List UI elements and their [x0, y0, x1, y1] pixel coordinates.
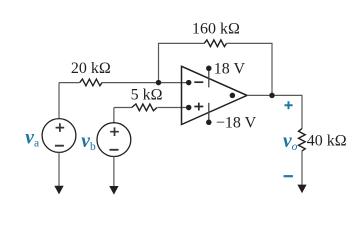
op-amp output dot — [230, 93, 236, 99]
ground arrow (load) — [297, 185, 306, 194]
wire: load bottom lead — [301, 151, 303, 186]
wire: va top lead — [58, 83, 60, 119]
op-amp plus marker — [194, 103, 203, 111]
svg-text:20 kΩ: 20 kΩ — [71, 60, 111, 77]
wire: va bottom lead — [58, 152, 60, 186]
pin: V- supply — [208, 103, 210, 123]
op-amp noninverting terminal dot — [186, 105, 192, 111]
ground arrow (vb) — [109, 186, 118, 195]
wire: top feedback right segment — [227, 43, 273, 95]
node: junction output/feedback — [269, 93, 275, 99]
ground arrow (va) — [54, 186, 63, 195]
wire: vb top lead — [113, 108, 115, 123]
op-amp minus marker — [194, 81, 203, 83]
svg-text:−18 V: −18 V — [216, 115, 257, 132]
pin: V+ supply — [208, 68, 210, 87]
svg-text:5 kΩ: 5 kΩ — [131, 87, 163, 104]
wire: noninverting row right — [157, 107, 188, 109]
source vb circle — [97, 123, 131, 157]
resistor RL 40k zigzag — [299, 129, 306, 151]
wire: inverting input row right — [102, 82, 189, 84]
svg-text:160 kΩ: 160 kΩ — [192, 21, 240, 38]
source va plus — [56, 123, 65, 132]
wire: noninverting row left — [114, 107, 132, 109]
svg-text:40 kΩ: 40 kΩ — [307, 132, 347, 149]
op-amp inverting terminal dot — [186, 80, 192, 86]
wire: output row — [247, 95, 302, 128]
wire: top feedback left segment — [159, 43, 205, 82]
label + output polarity — [285, 101, 293, 109]
source va circle — [42, 119, 76, 153]
source vb minus — [110, 149, 119, 151]
resistor Rb 5k zigzag — [132, 104, 157, 111]
wire: vb bottom lead — [113, 157, 115, 188]
op-amp U1 triangle — [182, 66, 248, 124]
resistor Ra 20k zigzag — [80, 79, 102, 86]
svg-text:18 V: 18 V — [214, 61, 246, 78]
label - output polarity — [284, 175, 293, 177]
resistor Rf 160k zigzag — [204, 40, 226, 47]
wire: inverting input row left — [59, 82, 80, 84]
source vb plus — [110, 127, 119, 136]
source va minus — [55, 145, 64, 147]
node: junction inverting/feedback — [156, 80, 162, 86]
